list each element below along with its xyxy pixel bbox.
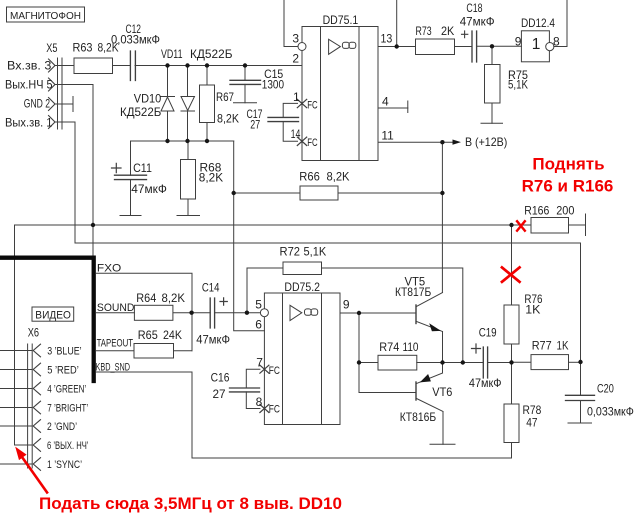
resistor R63 [74,58,113,74]
X6 pin4 wire [0,388,32,390]
svg-text:КД522Б: КД522Б [190,47,233,61]
svg-text:0,033мкФ: 0,033мкФ [587,405,634,419]
ВИДЕО module thick border [0,258,94,381]
svg-text:VD11: VD11 [161,47,183,61]
X5 pin 5 arrow [49,78,56,91]
pin 8 FC mark DD75.2 [260,405,269,413]
svg-text:Подать сюда 3,5МГц от 8 выв. D: Подать сюда 3,5МГц от 8 выв. DD10 [39,494,342,513]
terminator bar right of R166 [585,214,587,236]
svg-text:7: 7 [256,356,263,370]
svg-text:R74: R74 [379,340,399,354]
svg-text:1: 1 [293,90,300,104]
resistor R67 [200,66,215,142]
svg-text:DD75.2: DD75.2 [284,280,320,294]
capacitor C17 [268,103,299,141]
X6 pin3 arrow [33,344,40,357]
svg-text:2: 2 [292,52,299,66]
МАГНИТОФОН block label box [7,7,85,22]
op-amp DD75.2 [264,293,340,425]
resistor R68 [181,141,196,216]
connector X6 bus lines [28,344,33,468]
svg-text:6 ’ВЫХ. НЧ’: 6 ’ВЫХ. НЧ’ [47,440,89,452]
long vertical from diode bus to DD75.2 pin6 [234,141,265,331]
svg-text:4 ’GREEN’: 4 ’GREEN’ [47,383,86,395]
transistor VT5 [416,293,443,363]
wire SOUND to R64 [96,312,135,314]
resistor R64 [134,305,173,320]
wire X5 pin5 down to net A [55,85,93,258]
X6 pin7 wire [0,407,32,409]
svg-text:8,2K: 8,2K [217,111,239,125]
svg-text:FC: FC [269,365,280,377]
svg-text:5,1K: 5,1K [508,78,528,92]
resistor R74 [359,355,443,370]
wire FXO [96,273,192,351]
svg-text:С11: С11 [133,161,152,175]
wire top lead to DD75.1 pin3 [284,0,298,47]
svg-text:FXO: FXO [97,263,122,275]
wire DD75.2 pin9 to VT5 base [340,312,416,314]
red annotation X on R76 branch [501,267,521,283]
svg-text:КД522Б: КД522Б [120,105,161,119]
pin 3 inversion circle DD75.1 [298,43,306,51]
terminator bar pin4 [407,101,409,113]
wire DD75.1 pin13 to R73 [378,46,416,48]
wire C12 to DD75.1 pin2 [135,65,302,67]
svg-text:5,1K: 5,1K [304,245,327,259]
X5 pin 1 arrow [49,116,56,129]
ground at R68 [177,215,200,217]
capacitor C11 [112,141,147,216]
wire R64 to C14 [173,312,210,314]
wire TAPEOUT to R65 [96,350,134,352]
svg-text:R166: R166 [524,203,549,217]
X6 pin5 arrow [33,363,40,376]
logic gate DD12.4 [521,31,549,62]
svg-text:13: 13 [381,31,393,45]
pin 8 inversion circle DD12.4 [546,43,554,51]
svg-text:2 ’GND’: 2 ’GND’ [47,421,77,433]
svg-text:4: 4 [382,95,389,109]
svg-text:С20: С20 [597,382,614,396]
svg-text:KBD_SND: KBD_SND [96,362,131,374]
red annotation arrow [15,447,48,494]
svg-text:R65: R65 [138,328,158,342]
svg-text:200: 200 [556,203,574,217]
X5 pin 2 arrow [49,98,56,111]
svg-text:С16: С16 [211,370,230,384]
svg-text:DD75.1: DD75.1 [323,13,359,27]
svg-text:С19: С19 [479,325,497,339]
connector X5 bus lines [58,58,63,129]
capacitor C20 [566,362,595,423]
svg-text:47мкФ: 47мкФ [131,182,167,196]
wire DD75.1 pin4 stub [378,107,408,109]
wire lower bus (X5 pin1 net) [75,243,581,362]
wire R166 to terminator [569,224,586,226]
wire DD12.4 pin8 up lead [554,0,567,47]
svg-text:R64: R64 [136,291,156,305]
svg-text:3 ’BLUE’: 3 ’BLUE’ [47,345,81,357]
svg-text:TAPEOUT: TAPEOUT [97,338,134,350]
svg-text:FC: FC [307,137,317,149]
transistor VT6 [416,363,443,445]
wire X5 pin1 down to lower bus wire [55,122,75,243]
svg-text:B (+12В): B (+12В) [465,135,507,149]
svg-text:X6: X6 [28,325,40,339]
resistor R166 [531,218,569,234]
svg-text:47мкФ: 47мкФ [460,15,495,29]
wire net A horizontal (to R166) [15,224,532,226]
X6 pin5 wire [0,369,32,371]
ground at C20 [568,422,592,424]
op-amp DD75.1 [302,27,378,161]
X6 pin6 wire [15,444,33,446]
pin 7 FC mark DD75.2 [260,365,269,373]
resistor R76 [504,225,519,363]
diode VD10 [161,66,175,142]
svg-text:R63: R63 [73,40,93,54]
capacitor C18 [462,31,477,62]
svg-text:КТ817Б: КТ817Б [395,285,431,299]
wire DD75.1 pin11 +12V [378,141,453,143]
X5 pin 3 arrow [49,59,56,72]
ground at C15 [234,102,257,104]
svg-text:Вх.зв. 3: Вх.зв. 3 [7,59,52,73]
svg-text:R72: R72 [280,245,301,259]
svg-text:8,2K: 8,2K [327,169,350,183]
pin 1 FC mark DD75.1 [297,99,306,107]
capacitor C19 [472,344,488,378]
svg-text:Вых.НЧ 5: Вых.НЧ 5 [5,78,53,92]
svg-text:2K: 2K [441,24,454,38]
svg-text:7 ’BRIGHT’: 7 ’BRIGHT’ [47,402,88,414]
resistor R78 [504,363,519,459]
wire R63 to C12 [113,65,131,67]
wire X5 pin3 to R63 [55,65,74,67]
chassis terminator at X5 pin2 [72,97,74,112]
X6 pin2 arrow [33,420,40,433]
wire R78 bottom to KBD_SND [192,457,512,459]
svg-text:14: 14 [291,127,301,141]
resistor R77 [512,355,581,370]
X6 pin4 arrow [33,382,40,395]
svg-text:X5: X5 [46,41,57,55]
ВИДЕО label box [32,307,74,321]
resistor R66 [234,186,443,200]
X6 pin6 arrow [33,439,40,452]
wire net A down to X6 pin6 [14,225,16,445]
X6 pin2 wire [0,425,32,427]
capacitor C12 [130,51,135,81]
svg-text:SOUND: SOUND [97,302,135,314]
svg-text:Вых.зв. 1: Вых.зв. 1 [5,116,53,130]
svg-text:11: 11 [381,129,394,143]
svg-text:GND 2: GND 2 [24,97,50,111]
vertical pin9 node down to VT6 base [359,313,416,393]
wire R73 to C18 [455,46,473,48]
svg-text:R66: R66 [299,169,320,183]
wire X5 pin2 to chassis bar [55,103,73,105]
wire R65 to FXO vertical [174,350,193,352]
svg-text:ВИДЕО: ВИДЕО [35,309,71,321]
svg-text:47мкФ: 47мкФ [196,333,230,347]
svg-text:R76 и R166: R76 и R166 [522,177,614,196]
pin 14 FC mark DD75.1 [297,137,306,145]
svg-text:МАГНИТОФОН: МАГНИТОФОН [10,10,81,22]
svg-text:0,033мкФ: 0,033мкФ [111,33,160,47]
X6 pin1 arrow [33,458,40,471]
svg-text:FC: FC [269,403,280,415]
svg-text:47мкФ: 47мкФ [469,376,502,390]
output row wire to C19 [443,362,484,364]
svg-text:6: 6 [255,318,262,332]
svg-text:VD10: VD10 [134,91,162,105]
svg-text:27: 27 [250,118,260,132]
resistor R73 [416,39,455,55]
resistor R75 [485,47,501,124]
wire +12V rail down to VT5 collector [441,142,443,292]
svg-text:R73: R73 [416,24,432,38]
svg-text:8,2K: 8,2K [162,291,186,305]
svg-text:1: 1 [532,36,541,53]
svg-text:С14: С14 [202,281,220,295]
svg-text:Поднять: Поднять [532,155,604,174]
pin 5 inversion circle DD75.2 [260,309,268,317]
svg-text:R67: R67 [216,90,234,104]
svg-text:8: 8 [553,35,560,49]
svg-text:8: 8 [256,395,263,409]
svg-text:1K: 1K [557,338,569,352]
wire top lead at pin13 node [396,0,398,47]
arrow to B (+12V) [453,140,462,145]
ground at VT6 [430,443,455,445]
wire C19 to R76/R78 node [488,362,512,364]
capacitor C15 [230,66,261,103]
diode VD11 [181,66,195,142]
svg-text:С18: С18 [466,1,482,15]
red annotation X on net A [516,220,525,231]
wire diode lower bus [131,140,234,142]
svg-text:27: 27 [213,387,226,401]
wire C18 to DD12.4 pin9 [477,45,522,47]
ground at C11 [120,215,141,217]
svg-text:8,2K: 8,2K [199,171,223,185]
svg-text:VT6: VT6 [432,385,452,399]
svg-text:1K: 1K [525,303,540,317]
ground at R75 [481,122,503,124]
resistor R72 feedback [247,262,463,363]
svg-text:9: 9 [343,298,350,312]
wire C14 to DD75.2 pin5 [215,312,261,314]
capacitor C14 [210,298,227,328]
svg-text:R77: R77 [532,338,552,352]
svg-text:5: 5 [255,298,262,312]
svg-text:5 ’RED’: 5 ’RED’ [47,364,79,376]
wire KBD_SND [96,372,192,458]
svg-text:КТ816Б: КТ816Б [400,410,436,424]
svg-text:3: 3 [292,31,299,45]
X6 pin3 wire [0,350,32,352]
svg-text:1 ’SYNC’: 1 ’SYNC’ [47,459,82,471]
svg-text:FC: FC [307,99,317,111]
svg-text:110: 110 [403,340,419,354]
capacitor C16 [230,369,260,408]
X6 pin1 wire [0,463,32,465]
svg-text:47: 47 [526,415,537,429]
svg-text:DD12.4: DD12.4 [521,16,555,30]
svg-text:24K: 24K [163,328,182,342]
svg-text:1300: 1300 [262,78,284,92]
resistor R65 [134,344,174,359]
svg-text:9: 9 [515,35,522,49]
X6 pin7 arrow [33,401,40,414]
